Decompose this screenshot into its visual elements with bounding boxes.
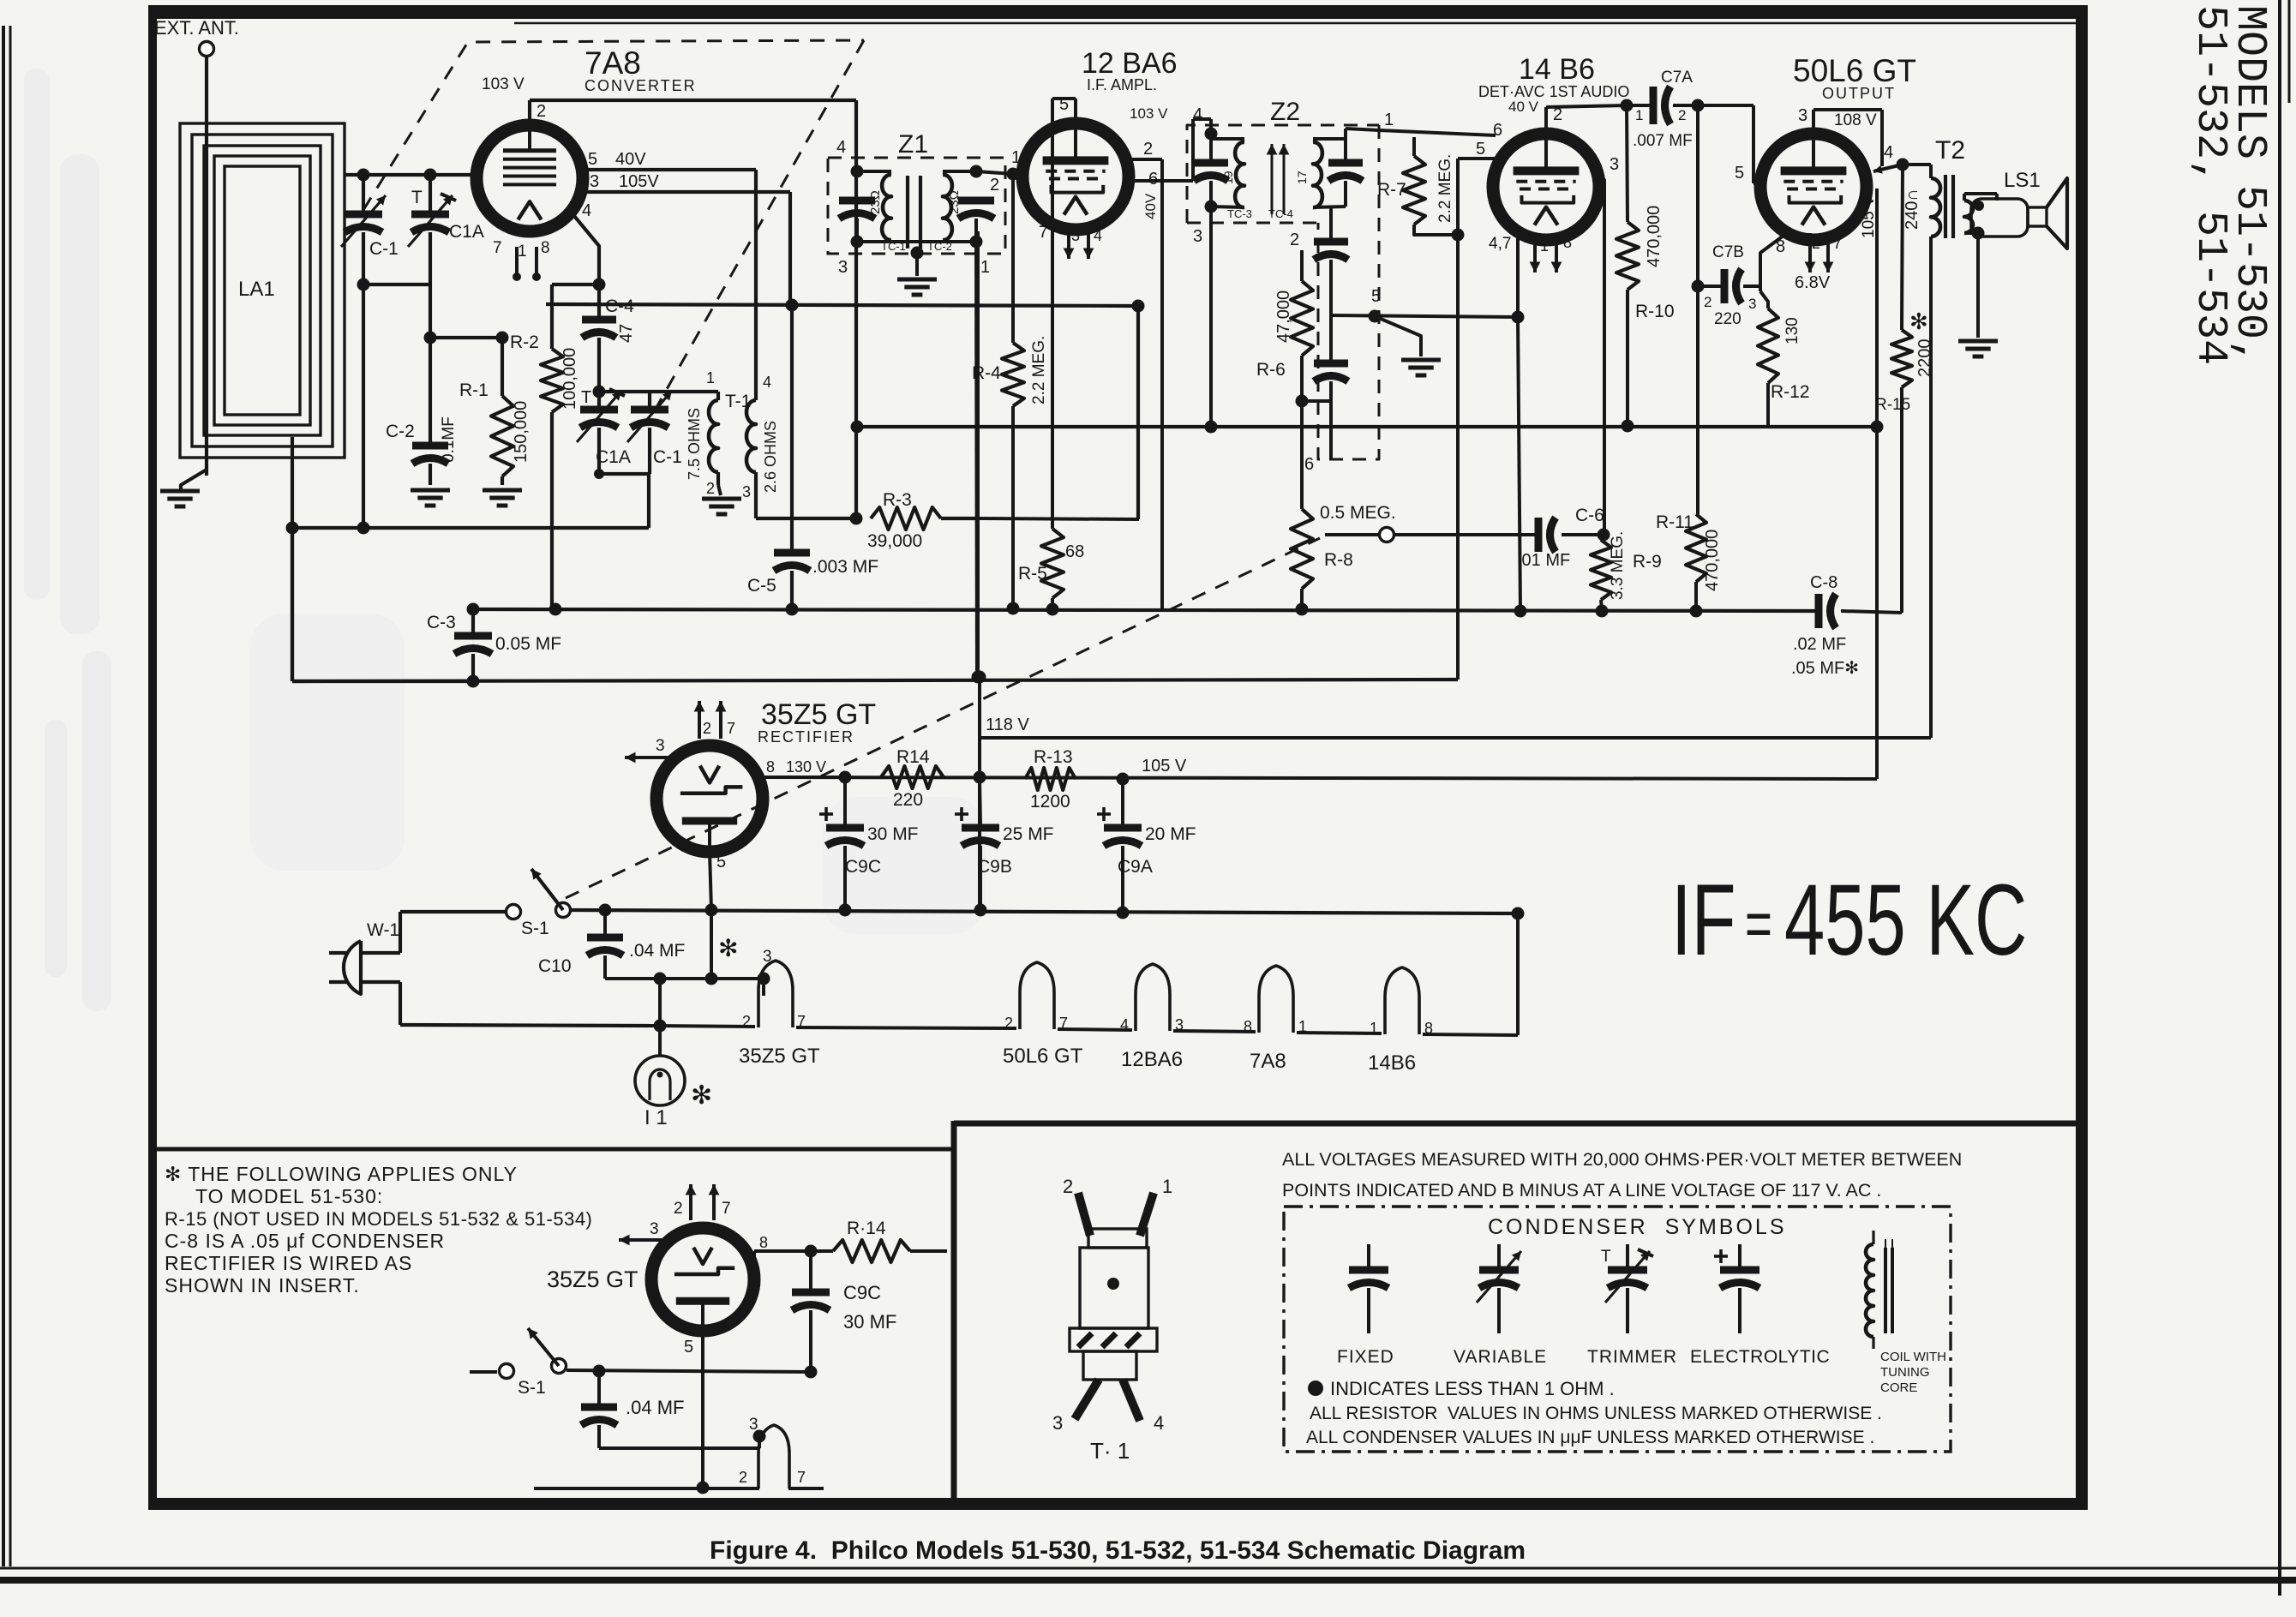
socket bump 50L6 — [1020, 962, 1054, 1029]
node Z1 ground tap — [911, 247, 924, 260]
svg-text:COIL WITH: COIL WITH — [1880, 1350, 1946, 1364]
socket bump insert — [758, 1425, 789, 1488]
wire plug lower — [400, 982, 650, 1026]
svg-text:7A8: 7A8 — [1250, 1050, 1286, 1073]
label 2 socket50L6 — [1004, 1015, 1068, 1032]
svg-text:S-1: S-1 — [521, 919, 549, 938]
svg-text:=: = — [1745, 888, 1772, 961]
tube 35Z5 — [656, 746, 763, 852]
svg-text:C-5: C-5 — [747, 576, 776, 596]
wire plug to switch — [400, 912, 506, 953]
capacitor Z1 secondary tuning — [958, 201, 994, 219]
electrolytic C9B — [955, 779, 999, 910]
svg-text:2.2 MEG.: 2.2 MEG. — [1436, 154, 1454, 223]
legend fixed capacitor — [1349, 1244, 1388, 1333]
label 118 V — [986, 716, 1029, 734]
svg-text:5: 5 — [684, 1338, 693, 1356]
svg-text:R14: R14 — [896, 747, 930, 767]
svg-text:14B6: 14B6 — [1368, 1051, 1416, 1075]
label pin4 50L6 — [1884, 143, 1893, 162]
label 40 V 14B6 — [1508, 99, 1539, 115]
ground Z1 — [897, 253, 937, 295]
svg-text:6: 6 — [477, 145, 486, 164]
svg-text:5: 5 — [1371, 287, 1381, 306]
label 20 MF — [1145, 824, 1196, 844]
label 39,000 — [867, 531, 922, 551]
node screen y498 — [1871, 421, 1884, 434]
node bus711 R2 — [549, 603, 562, 616]
svg-text:T: T — [411, 188, 423, 207]
scan smudge left margin — [24, 69, 111, 1011]
svg-text:C1A: C1A — [449, 222, 484, 242]
svg-text:1: 1 — [1384, 111, 1394, 129]
wire T2 sec bottom — [1964, 231, 1978, 235]
ground LS1 — [1958, 341, 1998, 356]
wire x830 down — [710, 910, 713, 979]
node y1142 x830 — [705, 973, 718, 985]
label pin6 Z2 — [1304, 455, 1314, 474]
legend electrolytic capacitor — [1714, 1244, 1759, 1333]
label 8 insert — [759, 1234, 768, 1251]
wire x1141 column — [976, 231, 980, 677]
speaker LS1 voice coil — [1971, 199, 2028, 237]
resistor R-6 — [1291, 250, 1313, 509]
wire y1142 line — [605, 977, 764, 980]
svg-text:R-5: R-5 — [1018, 564, 1047, 584]
coil Z1 primary — [857, 171, 891, 242]
svg-text:7: 7 — [493, 239, 502, 257]
svg-text:T: T — [581, 388, 591, 407]
node bus616 gang — [357, 522, 370, 535]
svg-text:5: 5 — [588, 150, 597, 169]
wire Z1 sec top to grid — [976, 171, 1013, 174]
node 14B6 cathode y370 — [1512, 311, 1525, 324]
label W-1 — [367, 920, 399, 940]
coil Z2 primary — [1211, 139, 1244, 207]
svg-text:R·14: R·14 — [847, 1219, 886, 1238]
Z1 core lines — [908, 176, 920, 249]
svg-text:3: 3 — [1610, 155, 1619, 174]
wire 35Z5 pin8 — [758, 776, 845, 779]
label C1A osc — [596, 447, 631, 467]
label pin3 T-1 — [742, 483, 751, 500]
wire 14B6 pin5 grid line — [1458, 159, 1496, 680]
node C-1 top — [357, 169, 370, 182]
label 30 MF — [867, 824, 919, 844]
label C9C insert — [843, 1282, 881, 1303]
coil Z1 secondary — [943, 171, 976, 242]
wire gang column down — [362, 284, 365, 528]
label C-8 — [1810, 573, 1837, 592]
wire LS1 ground — [1976, 233, 1980, 338]
svg-text:C-4: C-4 — [605, 296, 634, 316]
node y394 left — [424, 332, 437, 344]
svg-text:3: 3 — [1052, 1412, 1063, 1434]
wire y605 extension — [978, 518, 1139, 519]
label 7 socket35Z5 — [797, 1013, 806, 1030]
svg-text:ELECTROLYTIC: ELECTROLYTIC — [1690, 1347, 1830, 1367]
label 4 3 socket12BA6 — [1120, 1016, 1184, 1033]
label DET-AVC 1ST AUDIO — [1478, 83, 1629, 100]
svg-text:2: 2 — [742, 1013, 751, 1030]
legend trimmer capacitor — [1601, 1244, 1653, 1333]
svg-text:4: 4 — [836, 138, 846, 157]
label C-4 — [605, 296, 634, 316]
label 3 socket35Z5 — [763, 948, 772, 966]
wire bus y355 — [546, 304, 1138, 306]
svg-text:TC-1: TC-1 — [881, 240, 906, 253]
label R-12 — [1771, 382, 1810, 402]
coil Z2 secondary — [1313, 139, 1346, 207]
node C9C bottom — [839, 904, 852, 917]
svg-text:7: 7 — [722, 1200, 731, 1218]
svg-text:ALL VOLTAGES MEASURED WITH 20,: ALL VOLTAGES MEASURED WITH 20,000 OHMS·P… — [1282, 1149, 1962, 1170]
label pin2 C7B — [1704, 294, 1712, 310]
label asterisk I1 — [691, 1081, 712, 1110]
label 47 — [617, 324, 636, 343]
dashed gang line — [363, 40, 864, 416]
socket bump 7A8 — [1259, 966, 1293, 1033]
wire antenna to ground — [181, 470, 207, 489]
label pin4 Z1 — [836, 138, 846, 157]
label T trimmer — [411, 188, 423, 207]
pin7 label 12BA6 — [1039, 224, 1048, 242]
wire y909 105V line — [762, 777, 1877, 779]
scan smudge center — [250, 614, 986, 934]
svg-text:5: 5 — [1059, 95, 1069, 114]
label 220 — [1714, 310, 1741, 328]
node C7B left — [1692, 280, 1705, 293]
svg-text:118 V: 118 V — [986, 716, 1029, 734]
label 30 MF insert — [843, 1311, 896, 1333]
label pins 7 1 8 — [493, 239, 550, 261]
svg-text:7A8: 7A8 — [584, 45, 641, 81]
T2 core — [1945, 175, 1953, 238]
svg-text:1: 1 — [1370, 1020, 1378, 1037]
label Z2 — [1270, 98, 1300, 126]
heater arrows 35Z5 — [694, 701, 735, 739]
wire T2 primary bottom — [1929, 237, 1933, 738]
wire x1143 column — [978, 677, 981, 910]
capacitor C1A (antenna trimmer) — [408, 175, 456, 338]
label pin1 Z1 top — [1011, 148, 1021, 167]
label pin8 50L6 — [1776, 237, 1785, 256]
svg-text:105 V: 105 V — [1860, 195, 1878, 238]
panel text 2 — [1282, 1180, 1881, 1201]
label 8 130V — [766, 758, 826, 776]
wire T-1 top line — [599, 390, 718, 393]
wire 7A8 plate to Z1 — [530, 100, 856, 169]
wire Z2 pin5 line — [1331, 315, 1518, 317]
wire T2 primary top — [1903, 165, 1931, 178]
svg-text:Figure 4. Philco Models 51-53: Figure 4. Philco Models 51-530, 51-532, … — [710, 1536, 1526, 1565]
label 35Z5 GT insert — [547, 1267, 638, 1292]
svg-text:220: 220 — [1714, 310, 1741, 328]
wire grid line y204 — [345, 173, 476, 177]
label 0.05 MF — [495, 634, 561, 654]
resistor R-15 — [1891, 165, 1912, 613]
svg-text:23Ω: 23Ω — [868, 190, 883, 214]
label 0.1MF — [440, 416, 458, 463]
label 8 1 socket7A8 — [1244, 1018, 1307, 1035]
tube 35Z5 insert — [651, 1228, 754, 1331]
label 7A8 — [584, 45, 641, 81]
label .04 MF insert — [626, 1397, 684, 1418]
node C-1 bottom — [357, 278, 370, 291]
wire B- bus y1062 — [571, 910, 1518, 913]
svg-text:C-1: C-1 — [369, 239, 399, 259]
wire 50L6 pin8 cathode — [1760, 233, 1787, 291]
wire 14B6 cathode — [1516, 232, 1520, 317]
svg-text:C-6: C-6 — [1575, 506, 1604, 525]
wire screen bus y498 — [856, 425, 1878, 428]
svg-text:2: 2 — [1553, 105, 1562, 124]
svg-text:3: 3 — [1748, 296, 1756, 312]
antenna terminal — [200, 42, 214, 476]
label LA1 — [238, 278, 275, 301]
note line 6 — [165, 1274, 360, 1297]
svg-text:.02 MF: .02 MF — [1793, 635, 1846, 654]
svg-text:ALL RESISTOR VALUES IN OHMS U: ALL RESISTOR VALUES IN OHMS UNLESS MARKE… — [1310, 1404, 1882, 1423]
svg-text:7: 7 — [727, 720, 735, 737]
wire Z1 pin1 AVC column — [976, 242, 977, 677]
svg-text:4: 4 — [1120, 1016, 1129, 1033]
label I1 — [644, 1106, 668, 1129]
svg-text:✻: ✻ — [718, 935, 738, 961]
label C-3 — [427, 613, 456, 632]
node 14B6 plate junction — [1621, 99, 1634, 112]
svg-text:R-15: R-15 — [1875, 396, 1910, 414]
label 3.3 MEG — [1609, 531, 1627, 600]
label pin3 50L6 — [1798, 106, 1807, 125]
svg-text:3: 3 — [763, 948, 772, 966]
svg-text:4: 4 — [1884, 143, 1893, 162]
wire bus y616 — [292, 526, 649, 530]
svg-text:C9A: C9A — [1118, 857, 1153, 877]
wire 12BA6 cathode column — [1051, 99, 1054, 525]
wire x999 z1 column — [854, 169, 858, 518]
svg-text:.04 MF: .04 MF — [629, 941, 685, 961]
svg-text:2: 2 — [739, 1469, 747, 1486]
wire x924 down — [790, 305, 794, 518]
note line 4 — [165, 1230, 445, 1252]
node insert socket3 — [753, 1430, 766, 1443]
svg-text:47,000: 47,000 — [1274, 290, 1293, 343]
label 470,000 R10 — [1645, 206, 1664, 267]
label 14B6 — [1519, 53, 1595, 86]
svg-text:C-8: C-8 — [1810, 573, 1837, 592]
label 25 MF — [1003, 824, 1054, 844]
label .02MF — [1793, 635, 1846, 654]
label pin3 C7B — [1748, 296, 1756, 312]
part T-1 hatch band — [1070, 1328, 1157, 1351]
note box top border — [152, 1147, 954, 1152]
node C9A top — [1117, 773, 1130, 786]
node x1143 bus790 — [974, 671, 986, 684]
label 105V rotated — [1860, 195, 1878, 238]
wire R6 to Z2cap — [1302, 381, 1331, 401]
svg-text:3: 3 — [656, 737, 665, 755]
label C7B — [1712, 243, 1744, 261]
svg-text:4: 4 — [582, 201, 591, 220]
wire Z2 diode line — [1379, 130, 1496, 135]
resistor R-13 — [1025, 768, 1076, 790]
label TC-1 TC-2 — [881, 240, 952, 253]
wire insert tube pin5 — [701, 1331, 704, 1488]
svg-text:103 V: 103 V — [482, 75, 525, 93]
svg-text:C7A: C7A — [1661, 69, 1693, 87]
svg-text:240∩: 240∩ — [1903, 189, 1921, 230]
node T2 sec bottom — [1972, 227, 1985, 240]
wire x1771 down — [1518, 317, 1520, 611]
capacitor C10 — [587, 910, 623, 979]
pilot lamp I1 — [635, 1056, 685, 1105]
svg-text:130 V: 130 V — [786, 758, 826, 776]
label pin2 7A8 — [537, 102, 546, 121]
resistor R-9 — [1591, 540, 1611, 609]
svg-text:20 MF: 20 MF — [1145, 824, 1196, 844]
legend variable capacitor — [1477, 1244, 1521, 1333]
svg-text:39,000: 39,000 — [867, 531, 922, 551]
wire T2 sec top — [1964, 194, 1997, 201]
label R-3 — [883, 490, 912, 510]
label pin4 Z2 — [1193, 105, 1202, 124]
svg-text:C9C: C9C — [845, 857, 881, 877]
socket rail — [650, 1026, 755, 1027]
label S-1 insert — [518, 1378, 546, 1398]
node R-5 bottom — [1046, 603, 1059, 616]
node C-4 top — [593, 278, 606, 291]
svg-text:3: 3 — [1071, 227, 1080, 244]
label 50L6 GT socket — [1003, 1045, 1083, 1068]
label pin3 Z1 — [838, 258, 848, 277]
svg-text:TUNING: TUNING — [1880, 1365, 1930, 1380]
label pin6 14B6 — [1493, 121, 1502, 140]
node bus616 LA1 — [286, 522, 299, 535]
label 150,000 — [512, 401, 531, 463]
svg-text:C10: C10 — [538, 956, 572, 976]
wire 12BA6 pin6 screen — [1126, 119, 1211, 181]
label pin1 Z1 bottom — [980, 258, 990, 277]
svg-text:5: 5 — [1476, 140, 1485, 159]
svg-text:4,7: 4,7 — [1489, 235, 1511, 253]
svg-text:6.8V: 6.8V — [1795, 273, 1831, 292]
svg-text:.007 MF: .007 MF — [1633, 132, 1693, 150]
svg-text:C9C: C9C — [843, 1282, 881, 1303]
svg-text:3: 3 — [1798, 106, 1807, 125]
capacitor C-2 — [412, 338, 448, 485]
node y498 Z1 — [851, 421, 864, 434]
svg-text:FIXED: FIXED — [1337, 1347, 1394, 1367]
label 17 Z2 — [1295, 171, 1309, 184]
svg-text:150,000: 150,000 — [512, 401, 531, 463]
node bus green — [1512, 907, 1525, 920]
svg-text:VARIABLE: VARIABLE — [1454, 1347, 1547, 1367]
note line 5 — [165, 1252, 412, 1274]
node Z2 primary bottom — [1205, 201, 1218, 213]
label C1A — [449, 222, 484, 242]
label pin6 7A8 — [477, 145, 486, 164]
capacitor C-1 oscillator — [627, 391, 672, 474]
svg-text:2.6 OHMS: 2.6 OHMS — [762, 421, 779, 493]
page border right edge line — [2280, 0, 2289, 1596]
panel top border — [954, 1121, 2076, 1127]
label 4,7 14B6 — [1489, 235, 1511, 253]
label 14B6 socket — [1368, 1051, 1416, 1075]
capacitor Z2 primary tuning — [1194, 134, 1228, 207]
svg-text:C1A: C1A — [596, 447, 631, 467]
ground T-1 pin2 — [702, 485, 741, 514]
label pin5 40V — [588, 150, 646, 169]
svg-text:C9B: C9B — [977, 857, 1012, 877]
label COIL WITH TUNING CORE — [1880, 1350, 1946, 1395]
label .003 MF — [812, 557, 878, 577]
resistor R-2 — [541, 349, 563, 608]
label TRIMMER — [1587, 1347, 1677, 1367]
node y498 Z2 — [1205, 421, 1218, 434]
label 2.2 MEG R7 — [1436, 154, 1454, 223]
svg-text:5: 5 — [1735, 164, 1744, 183]
heater arrows 50L6 — [1805, 233, 1842, 272]
svg-text:RECTIFIER: RECTIFIER — [758, 728, 854, 746]
label 470,000 R11 — [1703, 530, 1722, 591]
svg-text:TRIMMER: TRIMMER — [1587, 1347, 1677, 1367]
node Z1 primary top — [851, 165, 864, 178]
svg-text:68: 68 — [1065, 542, 1084, 561]
label 5 insert — [684, 1338, 693, 1356]
svg-text:2: 2 — [674, 1200, 683, 1218]
part T-1 lower body — [1083, 1351, 1136, 1380]
legend coil symbol — [1866, 1231, 1892, 1349]
svg-text:130: 130 — [1783, 317, 1801, 344]
svg-text:17: 17 — [1295, 171, 1309, 184]
wire bus y711 — [473, 609, 1815, 611]
IF transformer Z1 box — [828, 158, 1005, 254]
wire 35Z5 cathode — [710, 852, 711, 910]
wire 50L6 pin3 plate — [1813, 110, 1882, 166]
svg-text:CONDENSER SYMBOLS: CONDENSER SYMBOLS — [1488, 1215, 1787, 1239]
wire screen 50L6 column — [1875, 189, 1879, 779]
svg-text:TC-2: TC-2 — [927, 240, 952, 253]
label 51-532 51-534 rotated — [2185, 5, 2234, 365]
legend resistor note — [1310, 1404, 1882, 1423]
potentiometer R-8 — [1291, 509, 1313, 609]
label IF = 455 KC — [1671, 863, 2027, 976]
svg-text:LS1: LS1 — [2004, 169, 2041, 192]
label pin2 14B6 — [1553, 105, 1562, 124]
label pin2 12BA6 — [1143, 140, 1153, 159]
label 130 — [1783, 317, 1801, 344]
node Z1 primary bottom — [851, 236, 864, 249]
wire 12BA6 pin5 grid — [1052, 99, 1076, 123]
wire LA1 inner lead — [291, 437, 294, 681]
capacitor Z1 primary tuning — [839, 201, 875, 219]
resistor R-5 — [1041, 525, 1064, 609]
svg-text:1: 1 — [518, 243, 527, 261]
svg-text:2: 2 — [1063, 1176, 1073, 1197]
node R-11 bottom — [1690, 605, 1703, 618]
svg-text:R-15 (NOT USED IN MODELS 51-53: R-15 (NOT USED IN MODELS 51-532 & 51-534… — [165, 1208, 592, 1230]
resistor R-1 — [491, 338, 513, 485]
label R-15 — [1875, 396, 1910, 414]
svg-text:103 V: 103 V — [1130, 105, 1168, 122]
label CONVERTER — [584, 77, 697, 94]
node Z2 pin5 dot — [1369, 310, 1382, 323]
wire y861 B+ line — [980, 736, 1931, 740]
svg-text:2: 2 — [537, 102, 546, 121]
svg-text:14 B6: 14 B6 — [1519, 53, 1595, 86]
ground Z2 pin5 — [1375, 316, 1441, 375]
